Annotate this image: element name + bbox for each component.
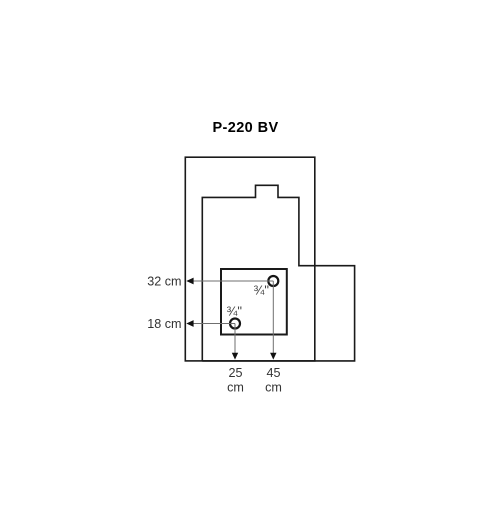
svg-text:32 cm: 32 cm	[147, 275, 181, 289]
svg-text:P-220 BV: P-220 BV	[212, 120, 278, 136]
outer enclosure outline	[185, 157, 314, 361]
svg-text:¾": ¾"	[254, 283, 270, 298]
svg-text:18 cm: 18 cm	[147, 317, 181, 331]
svg-text:45: 45	[266, 366, 280, 380]
arrowhead 45 cm	[270, 353, 276, 360]
arrowhead 18 cm	[186, 320, 193, 327]
dimension line 32 cm (horizontal)	[191, 280, 273, 282]
dimension line 25 cm (vertical)	[234, 324, 236, 355]
port circle bottom (3/4")	[230, 319, 240, 329]
port circle top (3/4")	[268, 276, 278, 286]
connection panel rectangle	[221, 269, 287, 335]
dimension line 18 cm (horizontal)	[191, 323, 235, 325]
svg-text:cm: cm	[265, 380, 282, 394]
arrowhead 32 cm	[186, 278, 193, 285]
svg-text:cm: cm	[227, 380, 244, 394]
arrowhead 25 cm	[232, 353, 238, 360]
svg-text:25: 25	[228, 366, 242, 380]
stove body outline with flue notch and right-side extension	[202, 185, 354, 361]
svg-text:¾": ¾"	[227, 303, 243, 318]
dimension line 45 cm (vertical)	[272, 281, 274, 354]
